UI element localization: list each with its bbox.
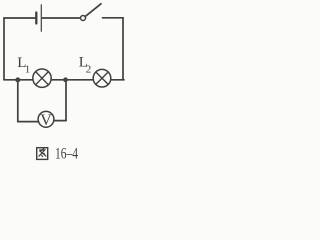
- wire voltmeter branch left vertical: [17, 80, 19, 122]
- lamp L2 circle: [93, 69, 111, 87]
- svg-text:V: V: [40, 112, 52, 129]
- wire between lamps: [51, 79, 93, 81]
- caption character TU (Figure): [37, 148, 48, 160]
- lamp L2 cross: [96, 72, 108, 84]
- wire battery to switch: [42, 17, 80, 19]
- battery E short plate (negative): [35, 13, 37, 24]
- wire lamp row left segment: [4, 79, 33, 81]
- switch S lever (open): [85, 4, 101, 16]
- wire left side vertical: [3, 18, 5, 80]
- wire top-left to battery: [4, 17, 36, 19]
- wire voltmeter branch bottom-left horizontal: [18, 121, 39, 123]
- wire lamp L2 to right corner: [111, 79, 124, 81]
- node junction dot middle: [63, 77, 68, 82]
- wire switch to top-right corner: [103, 17, 124, 19]
- voltmeter V circle: [38, 111, 54, 127]
- lamp L1 circle: [33, 69, 51, 87]
- wire voltmeter right horizontal: [54, 120, 66, 122]
- wire voltmeter branch right vertical: [65, 80, 67, 121]
- switch S pivot circle: [81, 16, 86, 21]
- svg-text:1: 1: [25, 63, 31, 75]
- lamp L1 cross: [36, 72, 49, 85]
- node junction dot left: [15, 77, 20, 82]
- svg-text:16–4: 16–4: [55, 145, 78, 162]
- battery E long plate (positive): [40, 5, 42, 31]
- wire right side vertical: [122, 18, 124, 80]
- svg-text:2: 2: [86, 63, 92, 75]
